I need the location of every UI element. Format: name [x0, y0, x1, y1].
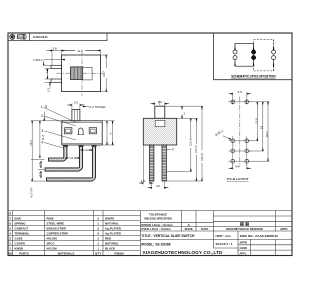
- svg-text:SCHEMATIC:2POS-2POSITION: SCHEMATIC:2POS-2POSITION: [231, 75, 276, 79]
- front knob: [72, 110, 80, 121]
- dim 4.5 top: [229, 92, 252, 99]
- pin hole B2: [245, 149, 249, 153]
- pin hole A3: [231, 159, 235, 163]
- svg-text:NATURAL: NATURAL: [105, 241, 119, 245]
- parts table texts: [8, 212, 124, 256]
- window right: [89, 128, 96, 134]
- pole 1 stub top: [234, 43, 236, 49]
- dim 4.0 pins AB: [68, 157, 79, 159]
- svg-text:15.2: 15.2: [29, 140, 33, 146]
- side centerline: [159, 101, 161, 131]
- side knob: [155, 106, 165, 118]
- pin hole row 3 centerline: [229, 160, 252, 162]
- svg-text:Ag PLATED: Ag PLATED: [105, 227, 121, 231]
- common pole stub top: [253, 43, 255, 49]
- sheet border: [8, 33, 292, 256]
- svg-text:WITHIN 1.5mm : ±0.1mm: WITHIN 1.5mm : ±0.1mm: [141, 223, 173, 227]
- pole 2 stub top dashed: [273, 40, 275, 46]
- pin hole A1: [231, 139, 235, 143]
- svg-text:APPD: APPD: [280, 227, 288, 231]
- right dims side view: [167, 107, 203, 181]
- svg-text:(16.6): (16.6): [194, 145, 198, 153]
- tolerance block texts: [141, 212, 208, 231]
- dim 3.0 side knob: [150, 102, 169, 106]
- svg-text:ISSUE: ISSUE: [185, 227, 193, 231]
- wire top: [235, 42, 254, 44]
- side pin left: [150, 145, 154, 181]
- svg-text:3: 3: [41, 129, 43, 133]
- svg-text:4.5: 4.5: [235, 164, 239, 168]
- pole 1 contact lower: [233, 56, 237, 60]
- pin root B: [79, 145, 83, 147]
- svg-text:2.2 TRAVEL: 2.2 TRAVEL: [90, 105, 107, 109]
- dim 3.3 leader: [44, 60, 65, 66]
- svg-text:P.C.B LAYOUT: P.C.B LAYOUT: [227, 177, 249, 181]
- svg-text:SPCC: SPCC: [47, 241, 56, 245]
- svg-text:4.0 TYP: 4.0 TYP: [29, 187, 33, 197]
- logo gear icon: [10, 34, 15, 39]
- window left: [65, 128, 72, 134]
- dim 4.0 knob height: [43, 112, 45, 121]
- svg-text:KNOB: KNOB: [15, 246, 24, 250]
- mounting hole left: [231, 99, 235, 104]
- side body: [143, 118, 176, 145]
- common pole contact upper: [251, 50, 255, 54]
- svg-text:18: 18: [260, 126, 264, 130]
- svg-text:COPPER STRIP: COPPER STRIP: [47, 231, 69, 235]
- dim 4.0 pins BC: [83, 149, 92, 151]
- revision block texts: [240, 222, 249, 225]
- small dims between pin bars: [40, 162, 42, 168]
- svg-text:MODEL: SS-22D88: MODEL: SS-22D88: [141, 243, 170, 247]
- pin hole B3: [245, 159, 249, 163]
- svg-text:CONTACT: CONTACT: [15, 227, 29, 231]
- dim 1 side top right: [165, 106, 203, 118]
- pole 2 stub bottom dashed: [273, 60, 275, 66]
- svg-text:CHKD: CHKD: [240, 246, 248, 250]
- svg-text:1.5: 1.5: [38, 172, 42, 176]
- front cover bottom edge: [62, 143, 102, 145]
- svg-text:FINISH: FINISH: [114, 251, 123, 255]
- dim 2.0 knob: [67, 104, 85, 109]
- svg-text:APPL: APPL: [240, 251, 247, 255]
- front body: [62, 121, 102, 145]
- svg-text:XIAOZHUOTECHNOLOGY CO.,LTD: XIAOZHUOTECHNOLOGY CO.,LTD: [143, 250, 224, 255]
- header separator: [29, 33, 31, 41]
- pin root C: [92, 145, 96, 147]
- svg-text:NATURAL: NATURAL: [105, 222, 119, 226]
- svg-text:Q'TY: Q'TY: [95, 251, 102, 255]
- svg-text:(18.2): (18.2): [200, 153, 204, 161]
- common pole contact lower: [251, 55, 255, 59]
- svg-text:BLACK: BLACK: [105, 246, 116, 250]
- svg-text:OVER 1.5mm : ±0.2mm: OVER 1.5mm : ±0.2mm: [141, 227, 171, 231]
- svg-text:1.5: 1.5: [38, 162, 42, 166]
- top view knob hatched: [71, 67, 83, 80]
- side inner slot: [155, 120, 165, 126]
- title block grid: [8, 211, 292, 256]
- pin root A: [63, 145, 67, 147]
- right dim 18.2: [249, 102, 270, 161]
- dim 1.0 side bottom: [139, 146, 154, 185]
- svg-text:SCALE 5 : 1: SCALE 5 : 1: [216, 242, 233, 246]
- left overall dim: [31, 121, 61, 181]
- right dim 12.8: [249, 102, 270, 141]
- svg-text:UNIT : mm: UNIT : mm: [216, 234, 231, 238]
- svg-text:1.5: 1.5: [47, 88, 51, 93]
- svg-text:2: 2: [172, 148, 174, 152]
- bent pin B: [45, 147, 83, 171]
- dim 11.7 right: [101, 55, 108, 92]
- svg-text:TERMINAL: TERMINAL: [15, 231, 30, 235]
- svg-text:WHITE: WHITE: [105, 217, 114, 221]
- top view terminal 1: [51, 65, 62, 68]
- projection symbol icon: [17, 35, 26, 40]
- dim 1.5 left: [45, 82, 54, 87]
- top view horizontal centerline: [57, 72, 106, 74]
- svg-text:3.3±0.3: 3.3±0.3: [33, 58, 43, 62]
- svg-text:Ag PLATED: Ag PLATED: [105, 231, 121, 235]
- svg-text:3.0: 3.0: [158, 100, 163, 104]
- dim 4.5 bottom: [229, 164, 252, 170]
- wire bottom: [235, 65, 254, 67]
- svg-text:PARTS: PARTS: [19, 251, 29, 255]
- svg-text:TITLE : VERTICAL SLIDE SWITCH: TITLE : VERTICAL SLIDE SWITCH: [141, 234, 195, 238]
- svg-text:DESCRIPTION OF REVISION: DESCRIPTION OF REVISION: [226, 227, 262, 231]
- label 2 side pin: [167, 148, 172, 150]
- svg-text:STEEL WIRE: STEEL WIRE: [47, 222, 65, 226]
- dim 2.2 travel: [83, 106, 89, 108]
- right dim 18: [249, 102, 264, 151]
- svg-text:4.0: 4.0: [86, 148, 91, 152]
- svg-text:DWG NO.: ZZ-SS-22D88-00: DWG NO.: ZZ-SS-22D88-00: [240, 234, 279, 238]
- pole 2 contact upper: [272, 50, 276, 54]
- dim 11.7 top: [62, 49, 101, 55]
- pcb vertical centerline: [239, 97, 241, 168]
- svg-text:APPR: APPR: [240, 241, 247, 245]
- top view body: [62, 55, 101, 92]
- svg-text:2.0: 2.0: [74, 101, 79, 105]
- svg-text:NYLON: NYLON: [47, 236, 57, 240]
- svg-text:4.5: 4.5: [45, 69, 49, 74]
- svg-text:11.7: 11.7: [77, 49, 83, 53]
- header bar: [8, 33, 107, 41]
- side pin right: [162, 145, 166, 181]
- pin hole row 1 centerline: [229, 140, 252, 142]
- pin hole B1: [245, 139, 249, 143]
- common pole stub bottom: [253, 60, 255, 66]
- pole 1 stub bottom: [234, 60, 236, 66]
- pin hole row 2 centerline: [229, 150, 252, 152]
- dashed enclosure: [254, 40, 274, 71]
- pole 1 contact upper: [233, 50, 237, 54]
- svg-text:SPRING: SPRING: [15, 222, 27, 226]
- top view knob phantom position: [83, 67, 92, 80]
- dim 3.8: [46, 49, 62, 65]
- dim 4.5 left: [45, 69, 54, 79]
- svg-text:BAR: BAR: [15, 217, 22, 221]
- svg-text:4.0: 4.0: [71, 156, 76, 160]
- svg-text:11.7: 11.7: [102, 71, 106, 77]
- svg-text:3.8: 3.8: [53, 47, 58, 51]
- center arch: [78, 128, 83, 135]
- svg-text:COVER: COVER: [15, 241, 26, 245]
- svg-text:18.2: 18.2: [265, 131, 269, 137]
- svg-text:RED: RED: [105, 236, 111, 240]
- svg-text:NYLON: NYLON: [47, 246, 57, 250]
- svg-text:NO.: NO.: [8, 251, 13, 255]
- pole 2 contact lower: [272, 56, 276, 60]
- svg-text:4.0: 4.0: [156, 184, 160, 188]
- bent pin A: [49, 147, 67, 161]
- pin hole A2: [231, 149, 235, 153]
- svg-text:UNLESS SPECIFIED: UNLESS SPECIFIED: [144, 216, 172, 220]
- pcb top row centerline: [228, 101, 252, 103]
- svg-text:1.0: 1.0: [141, 179, 145, 183]
- svg-text:4.5: 4.5: [238, 90, 242, 94]
- pin holes column lines: [232, 136, 234, 165]
- svg-text:12.8: 12.8: [255, 118, 259, 124]
- svg-text:11.6: 11.6: [41, 134, 45, 140]
- svg-text:CASE: CASE: [15, 236, 23, 240]
- svg-text:CAD FILE:: CAD FILE:: [33, 35, 48, 39]
- mounting hole right: [245, 99, 249, 104]
- top view terminal 2: [51, 79, 62, 82]
- svg-text:(13.6): (13.6): [189, 138, 193, 146]
- schematic box: [214, 33, 293, 80]
- svg-text:PA66: PA66: [47, 217, 54, 221]
- svg-text:1: 1: [41, 105, 43, 109]
- svg-text:MATERIALS: MATERIALS: [58, 251, 75, 255]
- front cover top edge: [62, 121, 102, 123]
- dim 4.0 side bottom: [148, 182, 169, 189]
- svg-text:2: 2: [41, 114, 43, 118]
- right dims front view: [103, 121, 115, 145]
- top view vertical centerline: [81, 51, 83, 97]
- svg-text:BRASS STRIP: BRASS STRIP: [47, 227, 67, 231]
- svg-text:DATE: DATE: [201, 227, 208, 231]
- bent pin C: [47, 147, 96, 181]
